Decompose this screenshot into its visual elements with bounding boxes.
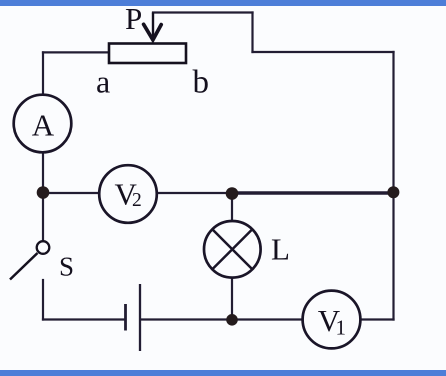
wire: thick parallel branch wire (middle junction to right junction) [232,191,394,195]
node: bottom junction [226,314,238,326]
voltmeter V1 [303,291,361,349]
wire: left junction down to switch circle [42,193,44,242]
switch blade [10,253,38,280]
wire: left junction to V2 [43,192,100,194]
wire: step vertical [251,13,253,53]
bottom blue banner [0,370,446,376]
node: left junction [37,186,50,199]
svg-text:P: P [125,1,142,36]
wire: right vertical [392,52,394,320]
wire: below switch down to bottom rail [42,280,44,320]
node: middle junction [226,187,239,200]
battery negative short plate [124,304,127,331]
top blue banner [0,0,446,6]
wire: left vertical down to ammeter [42,52,44,95]
node: right junction [387,186,399,198]
svg-text:S: S [59,252,74,282]
svg-text:1: 1 [336,315,347,339]
rheostat P (slider box) [109,44,186,64]
voltmeter V2 [99,165,157,223]
wire: battery long plate to bottom junction [141,318,232,320]
svg-text:L: L [271,232,290,267]
ammeter A [14,95,72,153]
svg-text:a: a [96,64,110,100]
wire: upper right horizontal [253,51,394,53]
wire: V2 to middle junction [157,192,233,194]
svg-text:A: A [32,108,55,143]
wire: V1 to right vertical [360,318,393,320]
wire: bottom junction to V1 [232,318,303,320]
switch S (open circle terminal) [37,241,50,254]
wire: left horizontal into rheostat [43,51,108,53]
wire: top horizontal from wiper arrow to step corner [153,11,253,13]
wire: middle junction down to lamp [231,193,233,222]
svg-text:b: b [193,65,210,101]
lamp L [204,221,261,278]
rheostat wiper arrow [144,13,162,40]
battery positive long plate [139,284,141,351]
wire: lamp down to bottom junction [231,278,233,320]
wire: ammeter to left junction [42,152,44,193]
wire: bottom rail to battery short plate [43,318,125,320]
svg-text:2: 2 [132,190,142,211]
